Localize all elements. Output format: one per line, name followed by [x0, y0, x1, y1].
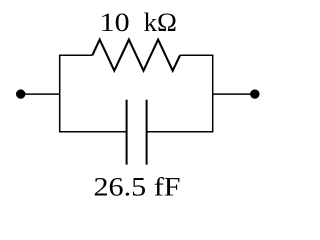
- wire top rail left: [59, 54, 92, 56]
- wire left terminal to left rail: [21, 93, 61, 95]
- wire bottom rail left: [59, 131, 127, 133]
- label R1 value 10 kΩ: [100, 7, 177, 37]
- capacitor C1 right plate: [146, 100, 148, 165]
- svg-text:10: 10: [100, 7, 130, 37]
- resistor R1: [92, 40, 180, 71]
- wire top rail right: [180, 54, 213, 56]
- wire left rail: [59, 55, 61, 133]
- node left terminal: [16, 89, 25, 98]
- svg-text:kΩ: kΩ: [144, 7, 177, 37]
- wire right rail: [212, 55, 214, 133]
- capacitor C1 left plate: [126, 100, 128, 165]
- wire right rail to right terminal: [212, 93, 254, 95]
- node right terminal: [250, 89, 259, 98]
- svg-text:26.5 fF: 26.5 fF: [94, 172, 181, 202]
- wire bottom rail right: [147, 131, 214, 133]
